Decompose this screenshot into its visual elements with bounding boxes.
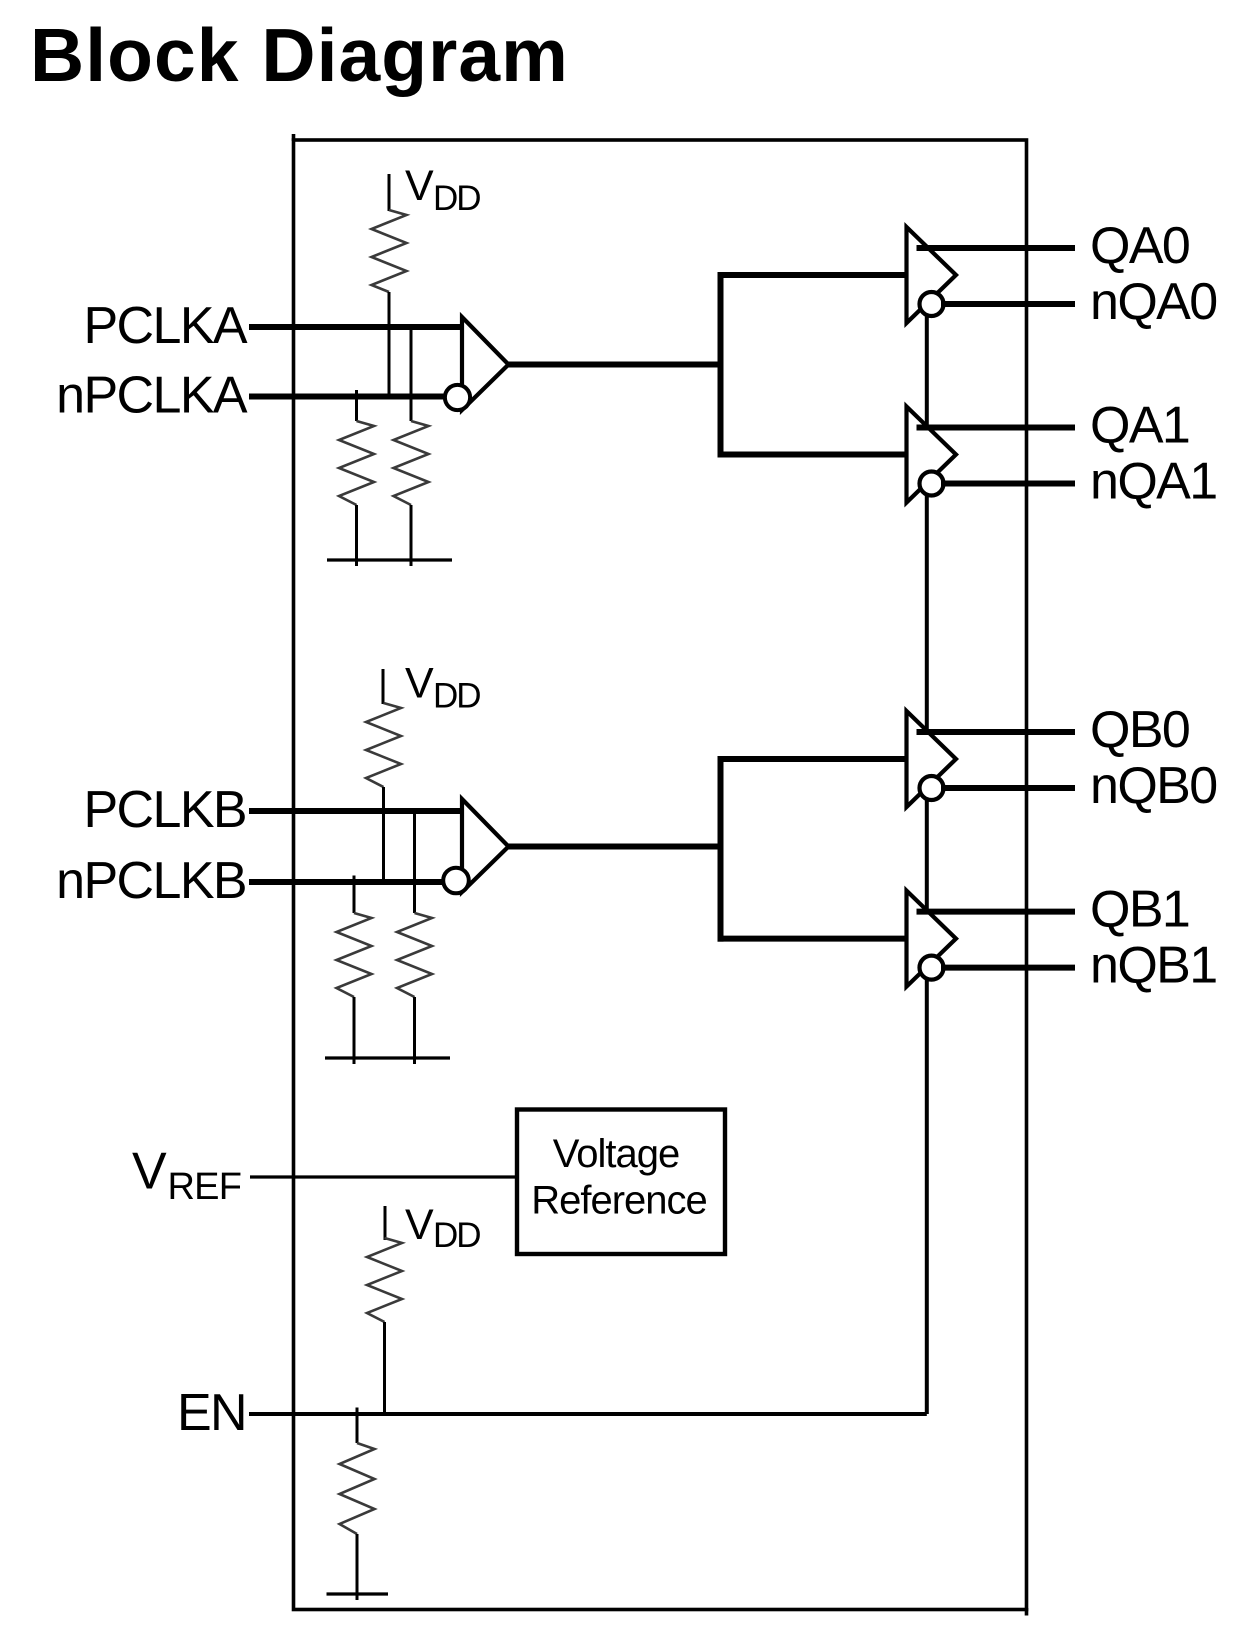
svg-text:DD: DD bbox=[433, 677, 480, 716]
VDD label EN section bbox=[405, 1201, 480, 1255]
wire EN enable net vertical (behind buffers) bbox=[925, 304, 929, 1414]
wire branch B vertical bbox=[718, 756, 724, 942]
svg-text:nQB0: nQB0 bbox=[1090, 757, 1217, 815]
wire branch B to buffer QB1 bbox=[718, 936, 908, 942]
wire QB1 output bbox=[917, 909, 1076, 915]
resistor R3 PCLKA pull-down bbox=[394, 421, 429, 505]
op-amp U6 output buffer QB1 bbox=[907, 891, 957, 987]
svg-text:EN: EN bbox=[177, 1384, 246, 1442]
inverting input bubble U1 bbox=[445, 385, 470, 410]
wire R2 to ground bbox=[355, 505, 358, 566]
wire nPCLKB to pull-down R5 bbox=[353, 876, 356, 914]
svg-text:PCLKA: PCLKA bbox=[83, 297, 247, 355]
VDD stub EN section bbox=[384, 1206, 387, 1240]
wire PCLKB to pull-down R6 bbox=[413, 811, 416, 913]
wire branch B to buffer QB0 bbox=[718, 756, 908, 762]
wire U4 output to branch B bbox=[508, 844, 724, 850]
wire nPCLKA input line bbox=[249, 394, 447, 400]
svg-text:DD: DD bbox=[433, 179, 480, 218]
wire R6 to ground bbox=[413, 997, 416, 1064]
svg-text:V: V bbox=[405, 1201, 434, 1249]
op-amp U3 output buffer QA1 bbox=[907, 407, 957, 503]
VDD stub channel A bbox=[388, 174, 391, 211]
chip boundary box bbox=[294, 134, 1027, 1616]
op-amp U5 output buffer QB0 bbox=[907, 711, 957, 807]
wire nPCLKA to pull-down R2 bbox=[355, 390, 358, 421]
svg-text:V: V bbox=[405, 162, 434, 210]
wire U1 output to branch A bbox=[508, 362, 724, 368]
wire nQB0 output bbox=[941, 785, 1075, 791]
wire branch A to buffer QA1 bbox=[718, 452, 908, 458]
wire R4 bottom to nPCLKB line bbox=[382, 787, 385, 882]
wire branch A vertical bbox=[718, 272, 724, 458]
wire EN input line bbox=[249, 1412, 927, 1416]
wire nQB1 output bbox=[941, 965, 1075, 971]
VDD label channel B bbox=[405, 660, 480, 716]
wire QA1 output bbox=[917, 425, 1076, 431]
wire QB0 output bbox=[917, 729, 1076, 735]
wire R3 to ground bbox=[410, 505, 413, 566]
svg-text:nQA0: nQA0 bbox=[1090, 273, 1217, 331]
svg-text:REF: REF bbox=[168, 1166, 242, 1208]
wire branch A to buffer QA0 bbox=[718, 272, 908, 278]
inverting input bubble U4 bbox=[443, 868, 469, 894]
resistor R6 PCLKB pull-down bbox=[397, 913, 432, 997]
wire PCLKA to pull-down R3 bbox=[410, 327, 413, 421]
svg-text:Block Diagram: Block Diagram bbox=[30, 13, 569, 97]
svg-text:nPCLKA: nPCLKA bbox=[56, 367, 248, 425]
svg-text:QA1: QA1 bbox=[1090, 397, 1189, 455]
svg-text:DD: DD bbox=[433, 1216, 480, 1255]
wire nQA0 output bbox=[941, 301, 1075, 307]
svg-text:nQB1: nQB1 bbox=[1090, 937, 1217, 995]
voltage reference block bbox=[517, 1110, 725, 1255]
resistor R2 nPCLKA pull-down bbox=[339, 421, 374, 505]
svg-text:V: V bbox=[405, 660, 434, 708]
resistor R5 nPCLKB pull-down bbox=[337, 913, 372, 997]
resistor R8 EN pull-down bbox=[340, 1443, 375, 1534]
wire PCLKB input line bbox=[249, 808, 463, 814]
svg-text:nQA1: nQA1 bbox=[1090, 453, 1217, 511]
wire QA0 output bbox=[917, 245, 1076, 251]
inverting output bubble U5 bbox=[920, 776, 944, 800]
svg-text:QB0: QB0 bbox=[1090, 701, 1189, 759]
svg-text:V: V bbox=[132, 1143, 167, 1201]
op-amp U2 output buffer QA0 bbox=[907, 227, 957, 323]
label VREF bbox=[132, 1143, 241, 1209]
svg-text:Voltage: Voltage bbox=[553, 1132, 679, 1176]
wire R7 bottom to EN line bbox=[383, 1322, 386, 1414]
wire R8 to ground bbox=[356, 1534, 359, 1600]
inverting output bubble U2 bbox=[920, 292, 944, 316]
resistor R4 PCLKB pull-up to VDD bbox=[366, 703, 401, 787]
wire nPCLKB input line bbox=[249, 879, 444, 885]
ground bar EN bbox=[327, 1592, 389, 1595]
svg-text:QB1: QB1 bbox=[1090, 881, 1189, 939]
op-amp U4 input buffer B (differential receiver) bbox=[462, 799, 509, 892]
inverting output bubble U3 bbox=[920, 472, 944, 496]
svg-text:nPCLKB: nPCLKB bbox=[56, 852, 246, 910]
wire R1 bottom to nPCLKA line bbox=[388, 292, 391, 397]
svg-text:PCLKB: PCLKB bbox=[83, 781, 246, 839]
VDD stub channel B bbox=[382, 669, 385, 704]
ground bar channel A bbox=[327, 558, 452, 561]
op-amp U1 input buffer A (differential receiver) bbox=[462, 317, 509, 410]
svg-text:Reference: Reference bbox=[531, 1179, 707, 1223]
wire R5 to ground bbox=[353, 997, 356, 1064]
wire PCLKA input line bbox=[249, 324, 463, 330]
wire VREF to voltage reference box bbox=[250, 1175, 518, 1178]
ground bar channel B bbox=[325, 1056, 450, 1059]
resistor R7 EN pull-up to VDD bbox=[367, 1238, 402, 1322]
inverting output bubble U6 bbox=[920, 956, 944, 980]
resistor R1 PCLKA pull-up to VDD bbox=[372, 210, 407, 292]
VDD label channel A bbox=[405, 162, 480, 218]
wire nQA1 output bbox=[941, 481, 1075, 487]
svg-text:QA0: QA0 bbox=[1090, 217, 1189, 275]
wire EN to pull-down R8 bbox=[356, 1408, 359, 1444]
